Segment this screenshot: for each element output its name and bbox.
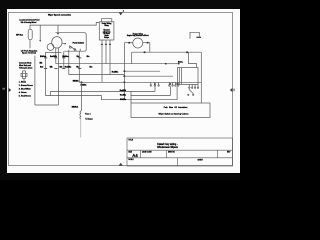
wire y74.6: [69, 74, 125, 76]
wire y52.4: [46, 51, 62, 53]
wiper switch pins: [150, 82, 179, 86]
terminal bar: [196, 37, 201, 38]
frame border: [9, 13, 233, 166]
svg-text:Park Slow Off Intermitte: Park Slow Off Intermittent: [164, 106, 188, 109]
svg-text:A4: A4: [132, 153, 138, 158]
park switch lever: [69, 46, 76, 51]
svg-text:Blu: Blu: [76, 66, 79, 68]
wire x79.3: [78, 51, 80, 82]
delay lead pin 3: [109, 40, 111, 75]
svg-text:2. Brown/Green: 2. Brown/Green: [19, 85, 33, 87]
fuse wire upper: [80, 82, 82, 110]
svg-text:Brake: Brake: [105, 35, 109, 37]
delay relay box U1: [99, 22, 114, 40]
bridge wire over delay box: [102, 19, 112, 22]
svg-text:7.5 Amps: 7.5 Amps: [85, 118, 93, 121]
connector dash row 2: [44, 67, 81, 70]
wire x131.7 down: [131, 52, 133, 64]
svg-text:Red/Blu: Red/Blu: [65, 66, 71, 68]
svg-text:Blu: Blu: [77, 56, 80, 58]
wire L1 y91.4: [50, 90, 155, 92]
wire y71.2: [124, 70, 160, 72]
wire y95.5 right: [131, 95, 170, 97]
right centre marker: [230, 88, 233, 92]
wire drop x40.2: [39, 25, 41, 40]
park contact tick b: [79, 49, 81, 52]
svg-text:Yellow pins above: Yellow pins above: [19, 68, 33, 70]
wire motor stem: [57, 25, 59, 33]
svg-text:3. Blue/White: 3. Blue/White: [19, 88, 32, 91]
title block outer: [127, 138, 233, 166]
svg-text:Red/Wht: Red/Wht: [50, 55, 57, 58]
motor bottom lead a: [55, 48, 57, 64]
left margin mark: [2, 88, 5, 90]
riser x171: [169, 86, 171, 95]
svg-text:Mounted: Mounted: [103, 29, 109, 32]
junction dot left: [128, 42, 130, 44]
wire y76.2: [124, 75, 173, 77]
svg-text:Blk/Grn: Blk/Grn: [40, 56, 46, 58]
junction dot right: [147, 42, 149, 44]
svg-text:Blk/Blu: Blk/Blu: [120, 99, 126, 101]
svg-text:CAGE CODE: CAGE CODE: [142, 150, 152, 153]
svg-text:Wiper Switch on Steering Colum: Wiper Switch on Steering Column: [159, 113, 189, 116]
title divider 2: [127, 157, 233, 159]
wire labels stack: [120, 90, 126, 101]
fuse tap dot: [81, 82, 83, 84]
inner bar 2: [181, 68, 183, 85]
cell divider bottom: [176, 158, 178, 166]
svg-text:Red/Blk: Red/Blk: [120, 90, 126, 92]
wire x34.9: [34, 56, 36, 105]
delay pin dashes: [101, 44, 111, 45]
svg-text:Blk: Blk: [50, 66, 53, 68]
park switch contact b: [74, 49, 76, 51]
svg-text:MF Box: MF Box: [16, 34, 24, 36]
svg-text:Blk: Blk: [40, 63, 43, 65]
svg-text:Wiper Speeds connection: Wiper Speeds connection: [48, 14, 72, 17]
pin list text: [19, 82, 33, 98]
motor bottom lead b: [57, 48, 59, 105]
inner bar 1: [178, 68, 180, 85]
svg-text:Park Switch: Park Switch: [73, 41, 85, 44]
svg-text:1. Black: 1. Black: [19, 82, 26, 84]
svg-text:REV: REV: [227, 151, 231, 153]
wire x45.5: [45, 52, 47, 95]
svg-text:SCALE: SCALE: [128, 158, 133, 161]
arrowhead motor stem: [57, 33, 59, 35]
wire W1 y51: [132, 51, 202, 53]
power terminal bracket: [190, 32, 199, 38]
svg-text:Relay: Relay: [104, 25, 108, 27]
junction dot: [144, 51, 146, 53]
L2 riser: [176, 86, 178, 100]
left centre marker: [9, 88, 12, 92]
svg-text:Windscreen Wipers: Windscreen Wipers: [157, 146, 179, 149]
park contact tick a / wire x68.8: [68, 50, 70, 75]
wire x201.3 down: [200, 52, 202, 103]
ignition pins: [189, 85, 199, 89]
left bus x124.7: [123, 43, 125, 100]
top centre marker: [119, 12, 123, 15]
wire x63.8: [63, 51, 65, 69]
bus junction dots: [124, 70, 126, 72]
wire y63.7: [56, 63, 166, 65]
stalk capsule component: [28, 29, 32, 39]
connector block plus symbol: [21, 71, 27, 79]
capsule bottom stem: [29, 40, 31, 49]
ignition switch box S2: [178, 68, 199, 85]
svg-text:Blu: Blu: [87, 56, 90, 58]
wire labels row1: [40, 55, 79, 58]
svg-text:Spare Terminal: Spare Terminal: [22, 52, 36, 55]
right marker blob: [233, 89, 235, 92]
fuse F1 squiggle: [80, 111, 82, 119]
cell divider: [217, 150, 219, 158]
engine relay K1: [133, 38, 143, 48]
wire x131: [130, 91, 132, 103]
svg-text:Blk/Red: Blk/Red: [72, 106, 78, 108]
delay lead pin 2: [105, 40, 107, 64]
connector dash row 1: [44, 57, 81, 60]
svg-text:4. Green: 4. Green: [19, 92, 27, 94]
wire L2 y95.6 with step: [46, 96, 178, 100]
wiper switch label box: [131, 103, 210, 118]
svg-text:Engine bay, fusebox left/front: Engine bay, fusebox left/front: [127, 34, 149, 37]
cell divider: [140, 150, 142, 158]
pin junction dots: [154, 83, 155, 84]
wire x188.4 down: [188, 52, 196, 67]
ignition lever: [189, 89, 194, 94]
park switch contact a: [69, 46, 71, 48]
wire x147.5 down: [149, 43, 151, 53]
svg-text:Fuse 1: Fuse 1: [85, 113, 91, 115]
svg-text:Blk: Blk: [60, 66, 63, 68]
svg-text:Located at Instrument Panel: Located at Instrument Panel: [19, 19, 40, 22]
svg-text:Relays: Relays: [104, 37, 109, 39]
bottom centre marker: [119, 163, 123, 166]
relay left lead: [124, 42, 132, 44]
wire bus y25.1: [30, 22, 99, 29]
svg-text:Red/Blu: Red/Blu: [112, 72, 118, 74]
park switch enclosure: [55, 33, 86, 52]
delay lead pin 1: [101, 40, 103, 82]
gearbox circle: [47, 44, 54, 51]
svg-text:Blk/Grn: Blk/Grn: [62, 56, 68, 58]
svg-text:5. Red/Green: 5. Red/Green: [19, 96, 31, 98]
svg-text:Grn/Blu: Grn/Blu: [120, 94, 126, 96]
wire stub x50.3: [49, 91, 51, 95]
wire labels row2: [40, 66, 79, 68]
relay right lead: [143, 42, 150, 44]
arrowhead x40.2: [39, 40, 41, 42]
junction dot: [186, 51, 188, 53]
L1 riser: [154, 86, 156, 91]
long wire y82.3: [79, 81, 201, 83]
battery connector segment: [166, 63, 179, 65]
svg-text:SHEET: SHEET: [198, 159, 203, 161]
delay box text: [102, 22, 112, 27]
fuse tail wire: [80, 119, 82, 138]
svg-text:Blu: Blu: [90, 66, 93, 68]
svg-text:Batt+: Batt+: [178, 60, 184, 63]
wire y105 joining: [35, 104, 59, 106]
motor right terminal tick: [62, 43, 64, 45]
connector stem: [23, 79, 25, 82]
svg-text:Blk/Blu: Blk/Blu: [73, 81, 79, 83]
svg-text:Red: Red: [40, 66, 43, 68]
svg-text:DWG NO: DWG NO: [168, 151, 175, 153]
title divider 1: [127, 149, 233, 151]
ignition lower contacts: [188, 94, 189, 95]
svg-text:TITLE: TITLE: [128, 139, 133, 141]
cell divider: [165, 150, 167, 158]
wiper motor M1: [52, 37, 62, 48]
